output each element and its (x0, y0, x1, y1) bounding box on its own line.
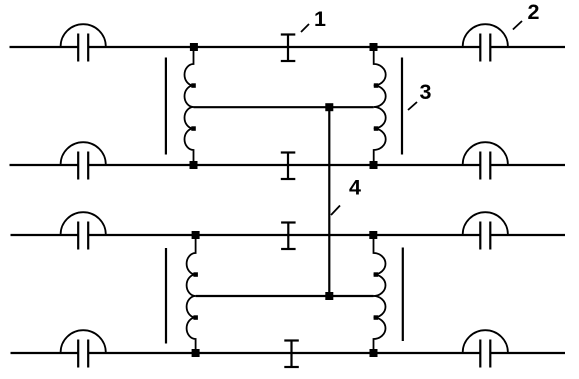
junction node: wire L4 / T2 right (370, 349, 378, 357)
core bar right of T1 (401, 58, 403, 155)
leader line for label 3 (408, 102, 417, 110)
coil joint dot T2-left upper (193, 272, 198, 277)
junction node: wire L2 / T1 left (190, 161, 198, 169)
capacitor C7 (bottom-left, bypass arc) (61, 330, 106, 367)
junction node: T2 centre tap / interconnect (325, 292, 333, 300)
capacitor C3 (row2-left, bypass arc) (61, 142, 106, 179)
coil joint dot T1-right upper (374, 83, 379, 88)
inductor T2 primary winding (bottom-left coil) (187, 239, 196, 349)
svg-text:4: 4 (349, 175, 361, 199)
capacitor C5 (row3-left, bypass arc) (61, 212, 106, 249)
isolation gap G3 on wire L3 (281, 223, 296, 250)
wire L4 segment c (490, 352, 565, 354)
svg-text:2: 2 (528, 0, 540, 24)
leader line for label 2 (513, 21, 522, 30)
core bar right of T2 (402, 248, 404, 342)
capacitor C4 (row2-right, bypass arc) (463, 142, 508, 179)
coil joint dot T1-right lower (374, 126, 379, 131)
capacitor C2 (top-right, bypass arc) (463, 24, 508, 61)
leader line for label 1 (301, 24, 309, 32)
wire L3 segment b (88, 234, 480, 236)
wire: T2 centre-tap link (196, 295, 374, 297)
coil joint dot T1-left lower (191, 126, 196, 131)
wire L4 segment a (11, 352, 79, 354)
wire L2 segment b (88, 164, 480, 166)
wire L1 segment b (88, 46, 480, 48)
svg-text:3: 3 (420, 80, 432, 104)
core bar left of T2 (165, 248, 167, 344)
wire L2 segment c (490, 164, 565, 166)
junction node: T1 centre tap / interconnect (325, 103, 333, 111)
wire L3 segment c (490, 234, 565, 236)
isolation gap G1 on wire L1 (281, 35, 296, 62)
isolation gap G2 on wire L2 (281, 153, 296, 180)
coil joint dot T2-right upper (374, 272, 379, 277)
junction node: wire L1 / T1 right (370, 43, 378, 51)
junction node: wire L3 / T2 right (369, 231, 377, 239)
capacitor C1 (top-left, bypass arc) (61, 24, 106, 61)
junction node: wire L3 / T2 left (192, 231, 200, 239)
wire L1 segment a (10, 46, 79, 48)
wire L1 segment c (490, 46, 565, 48)
inductor T1 primary winding (top-left coil) (185, 51, 194, 161)
wire L4 segment b (88, 352, 480, 354)
junction node: wire L1 / T1 left (190, 43, 198, 51)
inductor T1 secondary winding (top-right coil) (374, 51, 386, 161)
core bar left of T1 (165, 58, 167, 155)
leader line for label 4 (331, 206, 340, 216)
wire L2 segment a (10, 164, 79, 166)
capacitor C6 (row3-right, bypass arc) (463, 212, 508, 249)
inductor T2 secondary winding (bottom-right coil) (374, 239, 386, 349)
junction node: wire L2 / T1 right (370, 161, 378, 169)
coil joint dot T2-left lower (193, 315, 198, 320)
capacitor C8 (bottom-right, bypass arc) (463, 330, 508, 367)
wire: vertical interconnect (item 4) (328, 107, 330, 296)
wire: T1 centre-tap link (194, 106, 374, 108)
isolation gap G4 on wire L4 (284, 341, 299, 368)
coil joint dot T1-left upper (191, 83, 196, 88)
coil joint dot T2-right lower (374, 315, 379, 320)
svg-text:1: 1 (314, 7, 326, 31)
junction node: wire L4 / T2 left (192, 349, 200, 357)
wire L3 segment a (11, 234, 79, 236)
